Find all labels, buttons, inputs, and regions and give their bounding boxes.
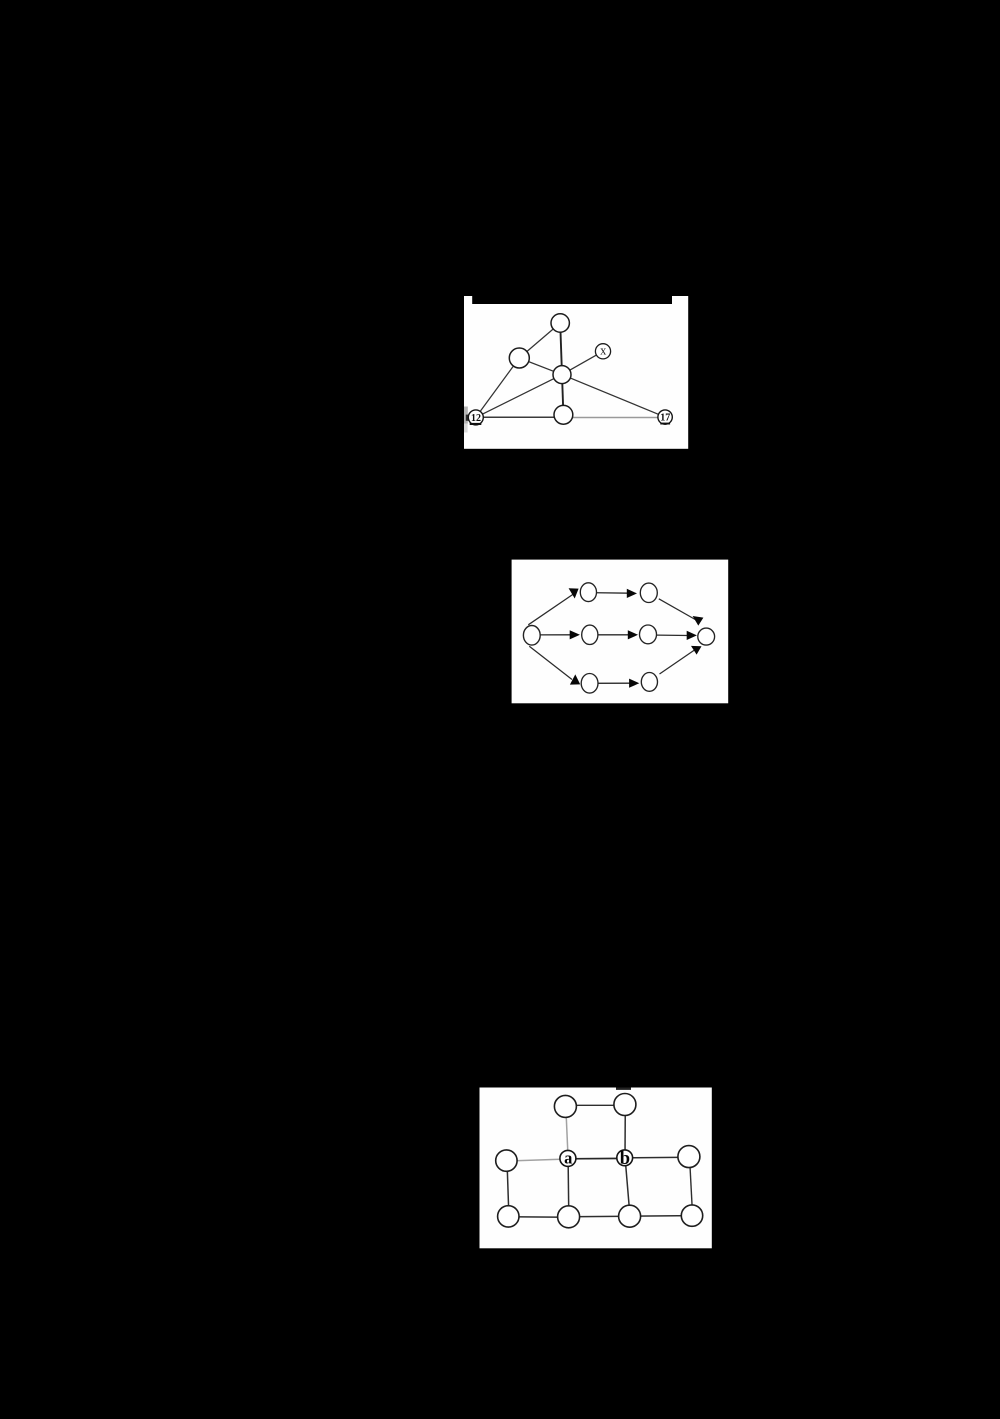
edge M1-M2 [590, 634, 630, 636]
scan artifact gray bar left edge [464, 407, 468, 424]
edge ML-BL [507, 1161, 509, 1217]
edge ML-a gray [506, 1159, 568, 1161]
node sink [698, 628, 715, 645]
figure panel 2 background [512, 560, 729, 704]
node bot-3 [619, 1205, 641, 1227]
node bot2 [641, 673, 657, 692]
edge a-B2 [567, 1158, 570, 1216]
edge bottom-node17 gray [563, 417, 665, 419]
panel 1 top black scan bar [472, 296, 672, 304]
node mid-left [496, 1150, 517, 1171]
svg-text:a: a [564, 1149, 572, 1168]
node mid1 [582, 625, 598, 644]
node top-left sq [554, 1095, 576, 1117]
figure panel 1 background [464, 296, 688, 449]
arrowhead T2-K [693, 616, 704, 626]
scan artifact dark nub [466, 415, 469, 421]
arrowhead S-B1 [570, 674, 580, 684]
edge left-node12 [476, 358, 520, 417]
edge M2-K [648, 634, 688, 637]
edge b-B3 [625, 1158, 630, 1216]
edge S-B1 [529, 646, 572, 679]
edge TR-b [624, 1105, 626, 1158]
node bot1 [581, 674, 598, 694]
arrowhead M2-K [687, 631, 697, 640]
node top-right sq [614, 1094, 636, 1116]
arrowhead S-T1 [569, 588, 579, 598]
edge top-center [560, 323, 562, 375]
arrowhead M1-M2 [628, 630, 638, 639]
edge B1-B2 [590, 682, 631, 684]
svg-text:b: b [620, 1149, 630, 1169]
edge B2-B3 [569, 1215, 630, 1218]
edge node12-bottom [476, 416, 564, 418]
node source [523, 626, 540, 646]
arrowhead T1-T2 [627, 589, 637, 598]
node bot-left [498, 1206, 519, 1227]
node b [617, 1150, 633, 1166]
node top2 [640, 583, 657, 602]
node top1 [580, 583, 596, 602]
edge T1-T2 [588, 592, 630, 595]
node top [551, 314, 569, 332]
node bot-2 [558, 1206, 580, 1228]
edge MR-BR [690, 1157, 693, 1216]
node x [595, 344, 610, 359]
edge B3-BR [630, 1215, 692, 1218]
edge left-center [519, 358, 562, 375]
edge center-node12 [476, 375, 562, 418]
edge center-bottom [562, 375, 563, 415]
figure panel 3 background [480, 1088, 712, 1249]
node bot-right [681, 1205, 702, 1226]
edge S-M1 [532, 634, 571, 636]
node 17 thick underline scan mark [660, 423, 670, 425]
edge T2-K [659, 599, 697, 621]
svg-text:12: 12 [471, 413, 481, 424]
node mid2 [640, 625, 657, 644]
edge BL-B2 [508, 1216, 568, 1218]
edge TL-a gray [566, 1106, 568, 1158]
node a [560, 1150, 576, 1166]
arrowhead S-M1 [570, 630, 580, 639]
edge top-left node [519, 323, 560, 358]
edge S-T1 [528, 594, 574, 625]
edge center-node17 [562, 375, 665, 418]
edge B2-K [660, 650, 695, 674]
node 12 thick underline scan mark [470, 423, 482, 425]
svg-text:x: x [600, 343, 607, 357]
node left [509, 348, 529, 368]
panel 3 top black notch [616, 1088, 631, 1090]
arrowhead B2-K [691, 646, 702, 655]
edge center-x [562, 351, 603, 374]
node bottom [554, 405, 573, 424]
node 17 [658, 410, 672, 424]
node mid-right [678, 1146, 700, 1168]
edge b-MR [625, 1156, 689, 1159]
node 12 [468, 410, 483, 425]
edge TL-TR [565, 1104, 625, 1106]
arrowhead B1-B2 [629, 679, 639, 688]
edge a-b [568, 1157, 625, 1159]
svg-text:17: 17 [660, 413, 670, 424]
node center [553, 366, 571, 384]
